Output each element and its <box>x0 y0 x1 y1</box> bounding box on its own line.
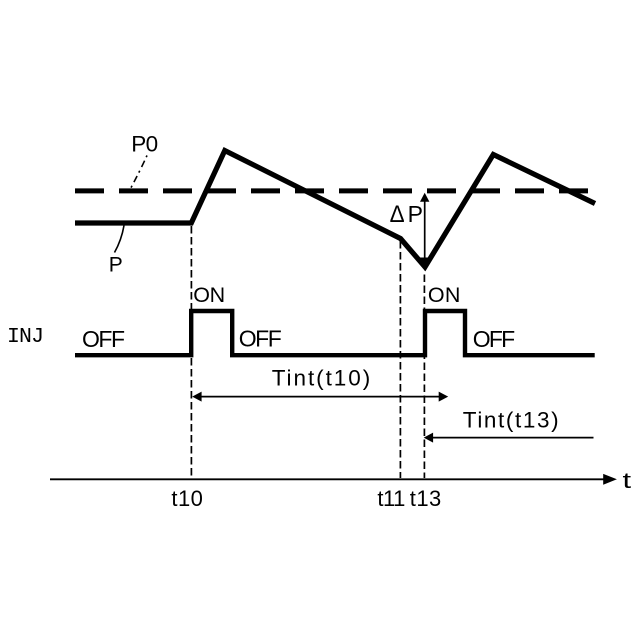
leader line P0 (dashed) <box>130 156 148 191</box>
svg-text:Δ: Δ <box>390 201 405 228</box>
svg-text:t10: t10 <box>171 486 203 511</box>
Tint(t10) interval arrow (double-headed) <box>200 396 440 398</box>
P0 reference dashed line <box>75 188 588 193</box>
delta-P arrow (double-headed vertical) <box>424 200 426 261</box>
svg-text:P: P <box>408 201 423 227</box>
svg-text:INJ: INJ <box>7 325 44 349</box>
svg-text:t13: t13 <box>410 486 442 511</box>
dashed vertical t13 <box>423 275 425 479</box>
time axis <box>50 478 604 480</box>
svg-text:t11: t11 <box>377 486 405 511</box>
svg-text:P: P <box>109 253 123 276</box>
svg-text:OFF: OFF <box>82 326 125 352</box>
Tint(t13) arrow (left-pointing) <box>432 437 594 439</box>
INJ waveform <box>75 311 595 355</box>
dashed vertical t11 <box>399 241 401 478</box>
svg-text:ON: ON <box>428 283 461 307</box>
svg-text:OFF: OFF <box>473 326 516 352</box>
svg-text:Tint(t13): Tint(t13) <box>463 407 559 432</box>
svg-text:OFF: OFF <box>239 325 282 351</box>
svg-text:P0: P0 <box>131 131 158 156</box>
P pressure curve <box>75 151 595 268</box>
svg-text:Tint(t10): Tint(t10) <box>272 365 371 390</box>
svg-text:t: t <box>623 468 633 493</box>
svg-text:ON: ON <box>193 283 225 307</box>
dashed vertical t10 <box>190 226 192 478</box>
leader line P (solid) <box>115 226 125 253</box>
